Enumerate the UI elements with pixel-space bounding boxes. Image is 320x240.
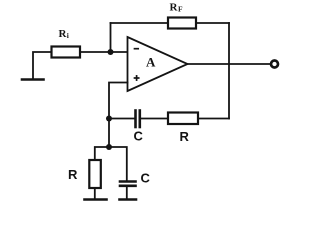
wire: Ri to inverting input [80,51,128,53]
wire: top rail right of RF [196,22,229,24]
capacitor C (shunt) [120,182,136,186]
wire: right vertical feedback line [228,23,230,119]
wire: shunt resistor to ground [94,188,96,199]
wire: capacitor to resistor R [141,118,168,120]
wire: shunt capacitor to ground [126,187,128,199]
wire: riser from node to top rail [110,23,112,52]
wire: node to shunt resistor [95,147,109,160]
svg-text:R: R [180,129,190,144]
svg-text:A: A [146,54,156,69]
node: junction at shunt RC [106,144,112,150]
svg-text:F: F [178,5,183,14]
op-amp A [128,37,188,91]
label Ri [59,28,69,40]
wire: resistor to right vertical [198,118,229,120]
wire: output to terminal [188,63,272,65]
svg-text:R: R [68,167,78,182]
ground under shunt C [120,198,137,201]
ground [22,78,44,81]
svg-text:i: i [67,31,69,40]
label minus input [135,48,139,50]
resistor R (shunt) [89,160,101,188]
svg-text:C: C [134,129,144,144]
ground under shunt R [85,198,107,201]
resistor RF [168,18,196,29]
svg-text:C: C [141,171,151,186]
wire: node to capacitor C [109,118,135,120]
label plus input [135,76,139,80]
capacitor C (series) [136,111,140,128]
wire: non-inverting input lead [109,83,128,148]
node: junction at series RC [106,116,112,122]
wire: node to shunt capacitor [109,147,127,181]
label RF [170,2,184,14]
node: inverting input junction [108,49,114,55]
output terminal [271,61,278,68]
resistor Ri [52,47,81,58]
wire: top rail left of RF [111,22,169,24]
wire: ground riser to Ri input [33,52,52,79]
resistor R (series) [168,113,198,125]
